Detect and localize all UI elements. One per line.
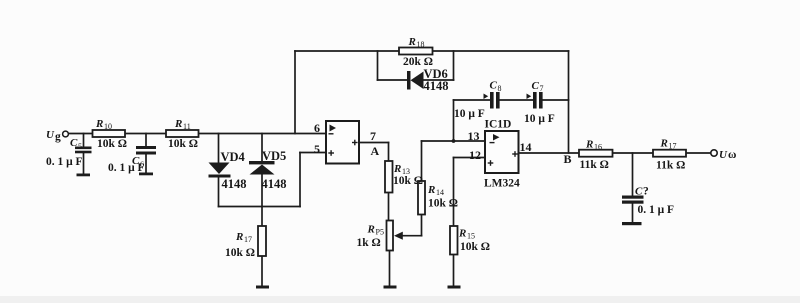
svg-text:R: R <box>95 118 103 130</box>
svg-text:0. 1 μ F: 0. 1 μ F <box>108 162 145 174</box>
svg-text:g: g <box>55 131 61 143</box>
svg-text:P5: P5 <box>376 228 384 237</box>
svg-text:R: R <box>427 184 435 196</box>
svg-text:U: U <box>719 149 728 161</box>
svg-text:U: U <box>46 129 55 141</box>
svg-text:7: 7 <box>540 84 544 93</box>
svg-text:4148: 4148 <box>262 177 287 191</box>
svg-text:VD5: VD5 <box>262 149 286 163</box>
svg-text:11: 11 <box>183 122 191 131</box>
svg-text:R: R <box>660 138 668 150</box>
svg-text:10 μ F: 10 μ F <box>454 108 485 120</box>
svg-text:18: 18 <box>417 40 425 49</box>
svg-text:A: A <box>371 144 380 158</box>
svg-text:VD4: VD4 <box>221 150 246 164</box>
svg-text:C: C <box>490 80 498 92</box>
svg-text:LM324: LM324 <box>484 178 520 190</box>
svg-text:13: 13 <box>468 129 480 143</box>
svg-text:11k Ω: 11k Ω <box>580 159 609 171</box>
svg-text:14: 14 <box>436 188 444 197</box>
svg-text:14: 14 <box>520 140 532 154</box>
svg-text:10 μ F: 10 μ F <box>524 113 555 125</box>
svg-text:ω: ω <box>728 149 736 161</box>
svg-text:10k Ω: 10k Ω <box>97 138 127 150</box>
svg-text:R: R <box>458 228 466 240</box>
svg-text:4148: 4148 <box>424 79 449 93</box>
svg-text:R: R <box>408 36 416 48</box>
svg-text:10k Ω: 10k Ω <box>168 138 198 150</box>
svg-text:12: 12 <box>469 148 481 162</box>
svg-text:0. 1 μ F: 0. 1 μ F <box>46 156 83 168</box>
svg-text:15: 15 <box>467 232 475 241</box>
svg-text:5: 5 <box>78 142 82 151</box>
svg-text:11k Ω: 11k Ω <box>656 160 685 172</box>
svg-text:10k Ω: 10k Ω <box>225 247 255 259</box>
svg-text:R: R <box>393 163 401 175</box>
svg-text:C: C <box>532 80 540 92</box>
svg-text:R: R <box>585 139 593 151</box>
svg-text:0. 1 μ F: 0. 1 μ F <box>638 204 675 216</box>
svg-text:10: 10 <box>104 122 112 131</box>
svg-text:1k Ω: 1k Ω <box>357 237 381 249</box>
svg-text:?: ? <box>643 186 649 198</box>
svg-text:R: R <box>235 231 243 243</box>
svg-text:17: 17 <box>244 235 252 244</box>
svg-text:16: 16 <box>594 143 602 152</box>
svg-text:10k Ω: 10k Ω <box>460 241 490 253</box>
svg-text:B: B <box>564 152 572 166</box>
svg-text:IC1D: IC1D <box>485 119 512 131</box>
svg-text:6: 6 <box>314 121 320 135</box>
svg-text:C: C <box>635 186 643 198</box>
svg-text:5: 5 <box>314 142 320 156</box>
svg-text:R: R <box>174 118 182 130</box>
svg-text:8: 8 <box>498 84 502 93</box>
svg-text:10k Ω: 10k Ω <box>428 198 458 210</box>
svg-text:R: R <box>367 224 375 236</box>
svg-text:17: 17 <box>669 142 677 151</box>
svg-text:4148: 4148 <box>222 177 247 191</box>
svg-text:7: 7 <box>370 129 376 143</box>
svg-text:10k Ω: 10k Ω <box>393 175 423 187</box>
svg-text:C: C <box>70 137 78 149</box>
